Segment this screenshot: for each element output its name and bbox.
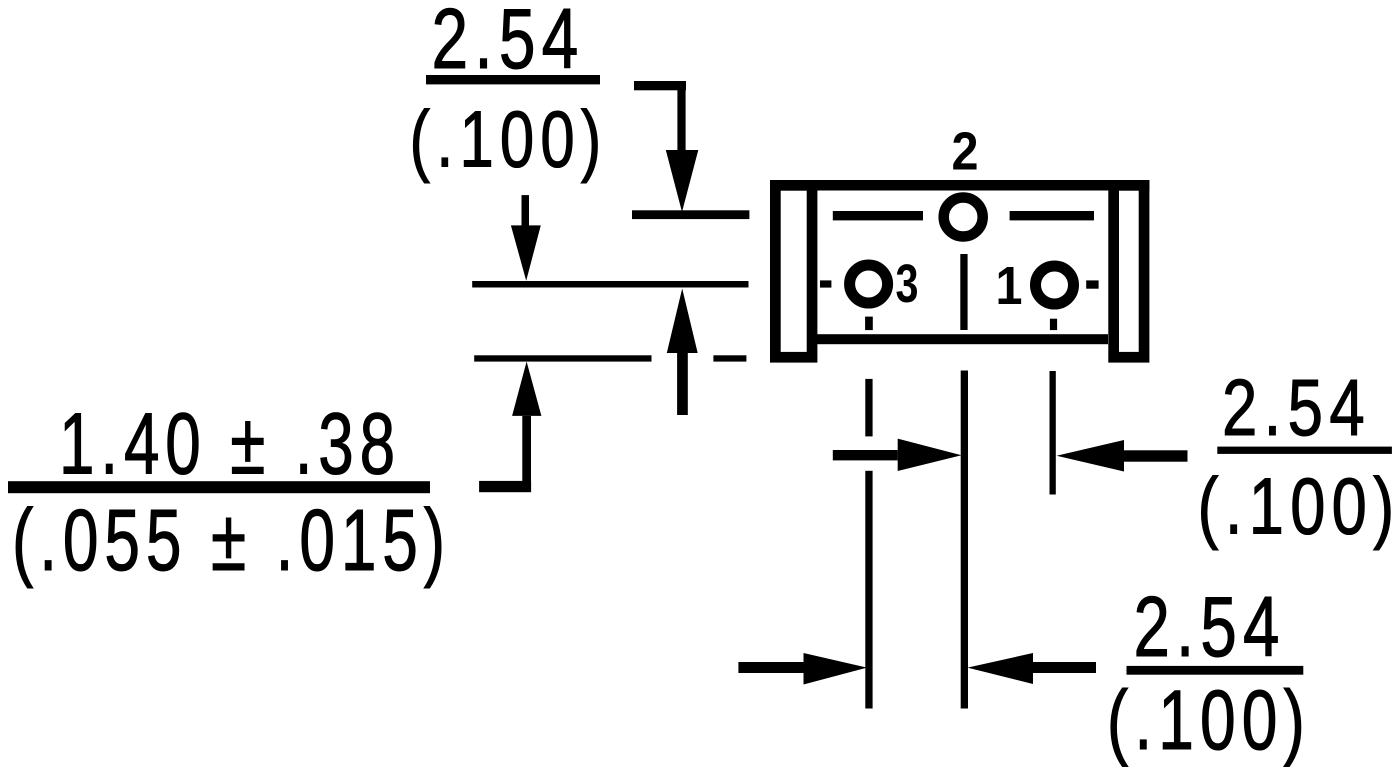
svg-text:1.40 ± .38: 1.40 ± .38 [59, 396, 401, 493]
fraction bar (right row 2) [1127, 666, 1304, 675]
center extension line [961, 371, 968, 709]
pin 3 extension line upper dash [865, 379, 872, 437]
component left mounting tab [775, 185, 812, 357]
pin 3 row left dash [820, 280, 831, 287]
pin 2 row centerline right dash [1010, 211, 1094, 220]
line C: standoff line [474, 355, 651, 361]
up arrow below line C with leader foot [512, 362, 541, 416]
fraction bar (top left label) [426, 75, 600, 84]
component right mounting tab [1114, 185, 1144, 357]
svg-text:3: 3 [896, 255, 919, 314]
vertical centerline below pin 2 [960, 254, 967, 330]
component body bottom edge [817, 334, 1108, 344]
tick below pin 1 [1050, 319, 1057, 330]
svg-text:2: 2 [952, 122, 979, 181]
fraction bar (right row 1) [1217, 447, 1392, 454]
row 1 dimension arrow (points right at center line) [833, 450, 898, 460]
svg-text:(.100): (.100) [1107, 673, 1311, 767]
pin 3 extension line lower segment [865, 471, 872, 709]
svg-text:2.54: 2.54 [1222, 363, 1371, 452]
svg-text:(.100): (.100) [410, 95, 608, 184]
leader vertical segment [677, 81, 685, 151]
svg-text:(.055 ± .015): (.055 ± .015) [12, 492, 451, 589]
leader arrowhead (down, onto line A) [666, 150, 699, 212]
component body top edge [770, 180, 1149, 191]
row 1 dimension arrow (points left at pin 1 line) [1057, 440, 1124, 472]
tick below pin 3 [865, 317, 873, 331]
svg-text:2.54: 2.54 [1134, 580, 1286, 675]
row 2 dimension arrow (points left at center line) [968, 653, 1034, 684]
row 2 dimension arrow (points right at pin 3 line) [738, 662, 803, 673]
line B: pin 1/3 row extension [472, 281, 748, 288]
svg-text:(.100): (.100) [1198, 462, 1400, 551]
pin 1 circle [1036, 266, 1074, 304]
svg-text:1: 1 [996, 257, 1023, 316]
svg-text:2.54: 2.54 [432, 0, 585, 87]
leader line from top-left label [634, 81, 686, 90]
fraction bar (1.40 label) [8, 481, 430, 493]
pin 3 circle [850, 265, 888, 303]
line C dash [713, 355, 746, 361]
pin 2 row centerline left dash [833, 211, 923, 220]
line A: pin 2 row extension [632, 210, 749, 219]
pin 1 extension line [1050, 371, 1056, 495]
up arrow below line B [667, 289, 698, 354]
pin 1 row right dash [1086, 280, 1098, 288]
down arrow onto line B [522, 195, 530, 226]
pin 2 circle [944, 198, 983, 237]
